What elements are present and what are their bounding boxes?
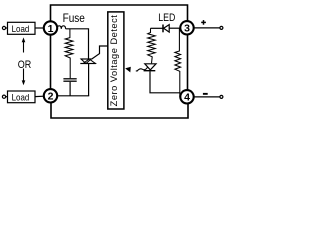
- terminal bbox=[220, 95, 223, 98]
wire capacitor to bottom rail bbox=[69, 82, 71, 96]
wire pin3 to + terminal bbox=[194, 27, 220, 29]
load box (top) bbox=[8, 22, 36, 34]
wire bbox=[35, 27, 44, 29]
svg-text:3: 3 bbox=[184, 23, 190, 35]
plus sign bbox=[201, 20, 206, 25]
svg-text:2: 2 bbox=[48, 91, 54, 103]
wire bbox=[35, 95, 44, 97]
pin 1 bbox=[44, 21, 57, 35]
wire bbox=[6, 27, 8, 29]
terminal (bottom-left) bbox=[2, 95, 5, 98]
opto emitter LED bbox=[144, 64, 156, 71]
LED indicator diode bbox=[151, 25, 181, 33]
fuse F1 bbox=[57, 26, 66, 29]
Zero Voltage Detect box bbox=[108, 12, 124, 109]
svg-text:Fuse: Fuse bbox=[63, 12, 85, 25]
svg-text:LED: LED bbox=[158, 12, 175, 24]
pin 3 bbox=[180, 21, 193, 35]
load box (bottom) bbox=[8, 91, 36, 103]
wire pin4 to - terminal bbox=[194, 96, 220, 98]
pin 4 bbox=[180, 90, 193, 103]
wire bbox=[6, 96, 8, 98]
svg-text:OR: OR bbox=[18, 59, 32, 71]
svg-text:Load: Load bbox=[12, 23, 30, 34]
minus sign bbox=[203, 93, 208, 95]
capacitor C (snubber) bbox=[63, 79, 76, 81]
svg-text:Zero Voltage Detect: Zero Voltage Detect bbox=[109, 15, 119, 107]
wire: fuse to triac corner bbox=[66, 29, 89, 59]
+ terminal bbox=[220, 26, 223, 29]
SSR package outline bbox=[51, 5, 189, 118]
bottom rail (pin2 to triac) bbox=[57, 95, 89, 97]
wire emitter LED to pin4 rail bbox=[150, 71, 180, 92]
arrow down to load2 bbox=[22, 69, 26, 86]
pin 2 bbox=[44, 89, 57, 102]
triac bbox=[80, 59, 96, 96]
light squiggle arrow (LED light into ZVD detector) bbox=[136, 67, 148, 71]
resistor R1 (LED series) bbox=[148, 28, 156, 63]
arrow up to load1 bbox=[22, 37, 26, 52]
resistor R2 (parallel) bbox=[175, 28, 181, 97]
svg-text:4: 4 bbox=[184, 92, 190, 104]
terminal (top-left) bbox=[2, 26, 5, 29]
resistor R (snubber) bbox=[65, 29, 73, 78]
svg-text:Load: Load bbox=[12, 92, 30, 103]
svg-text:1: 1 bbox=[48, 23, 54, 35]
triac gate wire to ZVD bbox=[91, 46, 107, 59]
